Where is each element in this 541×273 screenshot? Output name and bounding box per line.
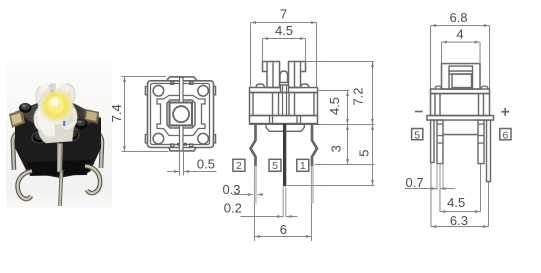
- svg-text:7.2: 7.2: [350, 87, 365, 105]
- svg-text:1: 1: [300, 160, 306, 172]
- svg-text:6.8: 6.8: [449, 10, 467, 25]
- svg-text:6.3: 6.3: [450, 213, 468, 228]
- svg-text:4.5: 4.5: [275, 23, 293, 38]
- svg-text:5: 5: [356, 150, 371, 157]
- svg-text:6: 6: [502, 129, 508, 141]
- svg-text:6: 6: [280, 222, 287, 237]
- svg-text:5: 5: [414, 129, 420, 141]
- svg-text:4.5: 4.5: [327, 97, 342, 115]
- svg-text:0.3: 0.3: [222, 182, 240, 197]
- svg-text:7: 7: [280, 6, 287, 21]
- svg-text:4.5: 4.5: [447, 195, 465, 210]
- svg-text:3: 3: [329, 145, 344, 152]
- svg-text:7.4: 7.4: [109, 104, 124, 122]
- svg-text:0.5: 0.5: [197, 156, 215, 171]
- svg-text:0.2: 0.2: [224, 200, 242, 215]
- svg-text:2: 2: [236, 160, 242, 172]
- svg-text:5: 5: [272, 160, 278, 172]
- svg-text:0.7: 0.7: [406, 175, 424, 190]
- svg-text:4: 4: [456, 27, 463, 42]
